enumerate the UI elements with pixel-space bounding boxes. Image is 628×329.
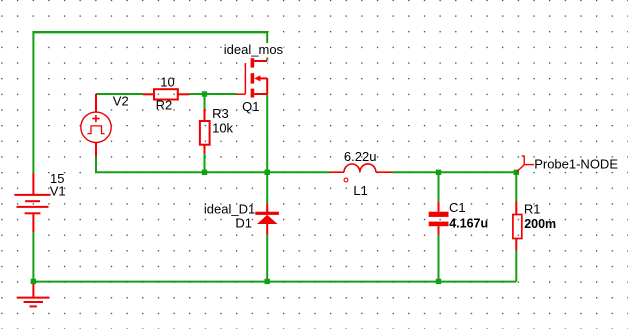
svg-text:R2: R2 (156, 98, 173, 113)
wire Q1 source to mid rail (266, 95, 268, 172)
drain stub (254, 60, 267, 62)
wire R1 top (515, 172, 517, 201)
battery V1 (14, 173, 50, 232)
junction R3 bottom node (202, 170, 207, 175)
svg-text:L1: L1 (353, 183, 367, 198)
junction D1 bottom node (265, 279, 270, 284)
junction R2 R3 gate node (202, 91, 207, 96)
wire mid rail right of L1 (393, 171, 517, 173)
wire V2 to R2 (96, 93, 143, 95)
voltage source V2 (81, 94, 111, 157)
wire R2 to Q1 gate (190, 93, 238, 95)
wire mid rail to D1 (266, 172, 268, 204)
svg-text:Probe1-NODE: Probe1-NODE (534, 157, 618, 172)
svg-text:ideal_mos: ideal_mos (224, 42, 284, 57)
svg-text:C1: C1 (449, 200, 466, 215)
inductor L1 (330, 164, 393, 182)
svg-text:Q1: Q1 (242, 99, 259, 114)
wire bottom rail (33, 281, 516, 283)
source bar (251, 89, 255, 98)
svg-text:V1: V1 (50, 184, 66, 199)
body lead with arrow (260, 77, 267, 79)
gate bar (244, 63, 246, 94)
svg-text:ideal_D1: ideal_D1 (204, 201, 255, 216)
wire R1 bottom (515, 251, 517, 282)
wire C1 top (438, 172, 440, 202)
junction R1 top node (514, 170, 519, 175)
diode D1 (255, 204, 279, 235)
wire V2 bottom to mid rail (96, 156, 330, 172)
svg-text:6.22u: 6.22u (344, 149, 377, 164)
source stub (254, 93, 267, 95)
junction V1 ground node (31, 279, 36, 284)
source-body right link (266, 78, 268, 94)
transistor Q1 ideal_mos (237, 58, 267, 97)
label ideal_mos (223, 42, 284, 57)
junction C1 bottom node (436, 279, 441, 284)
grid dot whiteouts along vertical nets (439, 175, 441, 208)
resistor R1 (513, 202, 522, 251)
resistor R3 (200, 109, 210, 154)
junction switch node (265, 170, 270, 175)
wire left rail lower (32, 232, 34, 282)
svg-text:10k: 10k (212, 120, 233, 135)
svg-text:4.167u: 4.167u (449, 217, 488, 231)
svg-text:10: 10 (160, 74, 174, 89)
capacitor C1 (429, 202, 449, 235)
gate lead (237, 93, 246, 95)
junction C1 top node (436, 170, 441, 175)
wire R3 top (204, 94, 206, 109)
svg-text:V2: V2 (113, 94, 129, 109)
svg-text:D1: D1 (235, 216, 252, 231)
body bar (251, 73, 255, 83)
ground (17, 284, 50, 306)
wire left rail upper (32, 31, 34, 173)
svg-text:R1: R1 (524, 202, 541, 217)
wire Q1 drain drop (266, 31, 268, 60)
svg-text:200m: 200m (524, 217, 556, 231)
wire D1 to bottom rail (266, 235, 268, 282)
svg-text:R3: R3 (212, 106, 229, 121)
probe marker Probe1 (517, 156, 534, 172)
resistor R2 (143, 89, 189, 99)
wire C1 bottom (438, 235, 440, 282)
wire R3 bottom (204, 154, 206, 172)
wire top rail (33, 31, 267, 33)
drain bar (251, 58, 255, 67)
